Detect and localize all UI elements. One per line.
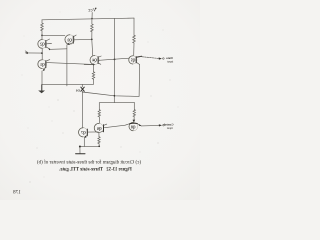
Vcc label bbox=[87, 8, 96, 14]
control terminal arrow bbox=[159, 124, 162, 126]
transistor Q4 bbox=[90, 55, 101, 64]
label Data input bbox=[166, 56, 173, 64]
transistor Q1 (lower left) bbox=[38, 60, 50, 71]
node A (R1 bottom junction) bbox=[41, 35, 43, 37]
resistor R1 bbox=[41, 20, 44, 36]
svg-text:Q8: Q8 bbox=[131, 126, 136, 130]
diode D1 bbox=[75, 85, 84, 93]
node input junction bbox=[41, 52, 43, 54]
transistor Q8 (control) bbox=[125, 122, 141, 131]
node D bbox=[114, 95, 116, 97]
wire (scan speckles) bbox=[22, 10, 179, 183]
wire Q4 bottom tee bbox=[84, 64, 93, 66]
label Control input bbox=[164, 122, 174, 130]
node crossing dot bbox=[114, 59, 116, 61]
wire Q1 emitter down bbox=[41, 71, 43, 85]
svg-text:Q4: Q4 bbox=[92, 59, 97, 63]
wire input node vertical bbox=[41, 48, 43, 60]
wire staple right vertical bbox=[133, 102, 135, 109]
wire staple top bbox=[99, 101, 134, 103]
wire Q6 to Q8 bbox=[104, 125, 125, 128]
svg-text:(c) Circuit diagram for the th: (c) Circuit diagram for the three-state … bbox=[37, 161, 141, 166]
ground (left) bbox=[38, 85, 45, 94]
wire Q7 emitter down bbox=[83, 138, 85, 146]
svg-text:input: input bbox=[167, 59, 173, 63]
svg-text:178: 178 bbox=[13, 189, 21, 195]
wire top Vcc bus bbox=[42, 18, 134, 20]
transistor Q3 (phase splitter) bbox=[65, 35, 76, 45]
wire long vertical from bus bbox=[113, 19, 115, 103]
svg-text:input: input bbox=[167, 126, 173, 130]
wire ground bus bbox=[42, 83, 94, 85]
transistor Q2 (upper left) bbox=[38, 35, 52, 50]
svg-text:Q2: Q2 bbox=[40, 43, 45, 47]
svg-text:Q6: Q6 bbox=[97, 127, 102, 131]
wire Q2 emitter to vertical bbox=[50, 48, 66, 51]
svg-text:Q3: Q3 bbox=[67, 38, 72, 42]
wire Q3 emitter down bbox=[66, 45, 68, 86]
svg-text:Figure 13-52 Three-state TTL: Figure 13-52 Three-state TTL gate. bbox=[59, 168, 132, 173]
transistor Q7 bbox=[79, 92, 88, 138]
svg-text:D1: D1 bbox=[75, 88, 79, 92]
wire control lead bbox=[141, 124, 159, 127]
wire Q4 base run to Q5 bbox=[99, 58, 129, 60]
node C bbox=[93, 64, 95, 66]
wire bottom rail bbox=[80, 145, 99, 147]
svg-text:Q5: Q5 bbox=[131, 59, 136, 63]
resistor R7 (above Q8) bbox=[133, 110, 136, 123]
wire Vcc stub bbox=[91, 12, 93, 18]
data terminal arrow bbox=[159, 57, 162, 59]
wire node B to Q4 bbox=[91, 39, 94, 55]
wire enable net bbox=[82, 92, 139, 96]
wire staple left vertical bbox=[98, 103, 100, 110]
resistor R4 (right drop) bbox=[133, 18, 136, 56]
svg-text:Q1: Q1 bbox=[40, 63, 45, 67]
wire data lead bbox=[140, 57, 160, 59]
wire base rail to Q3 bbox=[42, 34, 65, 36]
input terminal bbox=[25, 51, 42, 54]
resistor R6 (above Q6) bbox=[98, 110, 100, 124]
node B bbox=[91, 39, 93, 41]
wire Q7 to Q6 bottom bbox=[88, 131, 98, 133]
resistor R8 (Q6 emitter) bbox=[98, 133, 100, 147]
resistor R5 (Q4 emitter) bbox=[92, 65, 95, 85]
wire Q5 emitter down bbox=[138, 65, 141, 97]
wire Q3 collector to node B bbox=[74, 38, 92, 40]
transistor Q6 bbox=[94, 123, 107, 132]
resistor R3 bbox=[91, 19, 94, 40]
wire Q1 collector long run to right bbox=[47, 63, 94, 65]
node E bbox=[98, 145, 100, 147]
svg-text:Q7: Q7 bbox=[81, 131, 86, 135]
transistor Q5 (data) bbox=[129, 56, 142, 65]
ground (lower) bbox=[76, 146, 85, 154]
